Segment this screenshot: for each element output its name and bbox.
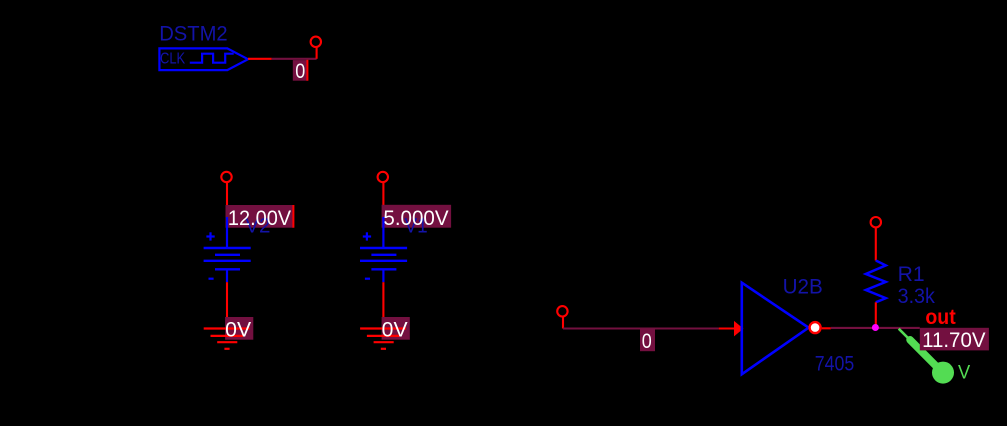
ground symbol V2	[204, 329, 250, 349]
bias label 5.000V	[382, 205, 452, 238]
terminal circle V1	[378, 172, 388, 182]
svg-text:0V: 0V	[382, 319, 408, 342]
wire terminal to V2	[226, 183, 228, 228]
net label 0 box (input)	[640, 330, 655, 354]
svg-text:0V: 0V	[225, 319, 251, 342]
V2 minus sign	[209, 278, 214, 280]
svg-text:3.3k: 3.3k	[898, 285, 936, 308]
input pin (red)	[719, 327, 741, 329]
resistor zigzag	[866, 261, 886, 303]
svg-text:CLK: CLK	[160, 51, 185, 68]
wire from DSTM2 to terminal	[272, 58, 317, 60]
V2 top pin	[226, 217, 228, 248]
clock waveform glyph	[190, 54, 234, 63]
wire terminal to V1	[382, 183, 384, 228]
svg-text:U2B: U2B	[783, 275, 823, 298]
net label 0 box	[293, 60, 308, 83]
wire V1 to ground	[382, 282, 384, 317]
svg-text:0: 0	[642, 330, 652, 353]
ground symbol V1	[360, 329, 406, 349]
svg-text:R1: R1	[898, 263, 925, 286]
bias label 11.70V	[920, 328, 989, 352]
clock source DSTM2	[159, 23, 272, 70]
svg-text:12.00V: 12.00V	[228, 207, 291, 230]
svg-text:0: 0	[295, 60, 305, 83]
input terminal circle	[557, 306, 567, 316]
junction dot	[872, 324, 879, 331]
wire to inverter	[563, 327, 719, 329]
wire R1 to junction	[875, 302, 877, 327]
V1 plus sign	[363, 232, 371, 240]
terminal circle R1 top	[871, 217, 881, 227]
wire bubble to junction	[831, 327, 876, 329]
wire V2 to ground	[226, 282, 228, 317]
wire up to terminal	[316, 48, 318, 59]
battery V2	[204, 248, 251, 269]
V1 minus sign	[365, 278, 370, 280]
svg-text:out: out	[925, 306, 955, 329]
stub from terminal	[562, 317, 564, 329]
svg-text:5.000V: 5.000V	[383, 207, 448, 230]
bias label 0V (V1 ground)	[382, 317, 410, 340]
terminal circle (DSTM2 net)	[311, 37, 321, 47]
inverter triangle	[742, 283, 809, 375]
V2 plus sign	[206, 232, 214, 240]
output bubble	[810, 322, 821, 333]
svg-text:DSTM2: DSTM2	[159, 23, 228, 46]
V1 top pin	[382, 217, 384, 248]
bias label 12.00V	[226, 205, 294, 238]
terminal circle V2	[221, 172, 231, 182]
svg-text:11.70V: 11.70V	[922, 329, 985, 352]
bias label 0V (V2 ground)	[225, 317, 253, 340]
V1 bottom pin	[382, 269, 384, 282]
pin stub (red)	[248, 58, 272, 60]
svg-text:V: V	[958, 363, 971, 384]
wire junction to out	[875, 327, 919, 329]
voltage probe needle	[899, 329, 941, 371]
wire terminal to R1	[875, 228, 877, 261]
output pin (red)	[822, 327, 831, 329]
clock symbol body	[159, 48, 248, 70]
V2 bottom pin	[226, 269, 228, 282]
svg-text:7405: 7405	[815, 352, 855, 375]
input arrowhead	[734, 321, 743, 337]
battery V1	[360, 248, 407, 269]
probe tip circle	[932, 362, 954, 384]
